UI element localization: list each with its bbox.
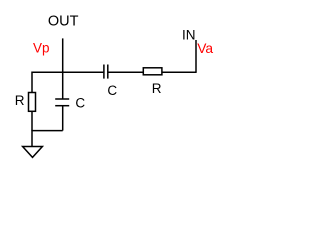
resistor R series (horizontal) xyxy=(143,68,162,75)
svg-text:C: C xyxy=(75,96,85,111)
capacitor C shunt (vertical) xyxy=(55,99,69,106)
wire ground stem xyxy=(31,130,33,147)
capacitor C series (horizontal) xyxy=(104,65,108,79)
svg-text:R: R xyxy=(152,81,162,96)
svg-text:IN: IN xyxy=(182,27,196,42)
wire OUT vertical stem xyxy=(62,38,64,72)
wire right vertical to IN xyxy=(195,40,197,73)
ground xyxy=(23,147,43,158)
svg-text:OUT: OUT xyxy=(48,14,79,30)
svg-text:Va: Va xyxy=(197,41,213,56)
wire left vertical upper (corner to resistor R) xyxy=(31,72,33,93)
wire resistor-to-right-corner segment xyxy=(162,71,196,73)
wire capacitor bottom to rail xyxy=(62,106,64,131)
svg-text:C: C xyxy=(107,83,117,98)
svg-text:R: R xyxy=(15,93,25,108)
wire bottom rail xyxy=(32,130,63,132)
wire left vertical lower (resistor R to bottom rail) xyxy=(31,111,33,130)
resistor R shunt (vertical) xyxy=(29,93,36,112)
svg-text:Vp: Vp xyxy=(33,41,50,56)
wire main horizontal left segment xyxy=(32,71,104,73)
wire capacitor-to-resistor segment xyxy=(108,71,143,73)
wire center vertical (junction to capacitor C shunt) xyxy=(62,72,64,99)
